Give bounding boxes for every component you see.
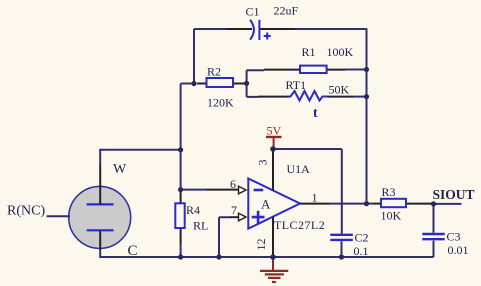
- op-amp minus input mark: [254, 189, 264, 192]
- node SIOUT junction: [431, 201, 436, 206]
- svg-text:R4: R4: [186, 203, 200, 217]
- svg-text:C1: C1: [246, 5, 260, 19]
- capacitor C1 22uF: [250, 20, 271, 40]
- svg-text:U1A: U1A: [287, 162, 311, 176]
- svg-text:RL: RL: [193, 219, 208, 233]
- power 5V symbol: [266, 137, 282, 148]
- svg-text:R1: R1: [302, 45, 316, 59]
- op-amp U1A triangle: [248, 179, 300, 229]
- svg-text:1: 1: [312, 191, 318, 205]
- wire pin 6 net: [181, 189, 238, 191]
- svg-text:C2: C2: [355, 231, 369, 245]
- svg-text:100K: 100K: [327, 45, 354, 59]
- resistor R1: [247, 66, 367, 73]
- svg-text:TLC27L2: TLC27L2: [274, 218, 325, 232]
- svg-text:R(NC): R(NC): [7, 204, 45, 219]
- svg-text:22uF: 22uF: [274, 4, 299, 18]
- resistor R3: [374, 199, 434, 207]
- wire left vertical from top to R2 node: [193, 29, 195, 84]
- resistor R2: [197, 78, 247, 87]
- svg-text:W: W: [113, 162, 127, 177]
- wire pin 7 net: [219, 217, 238, 257]
- svg-text:12: 12: [254, 239, 268, 251]
- wire SIOUT stub: [434, 203, 462, 205]
- node RT1 right rail junction: [364, 94, 369, 99]
- node pin 6 junction: [178, 187, 183, 192]
- node rail C2 junction: [339, 254, 344, 259]
- svg-text:SIOUT: SIOUT: [433, 187, 475, 202]
- wire lead from R(NC) label: [47, 215, 71, 217]
- svg-text:R2: R2: [207, 65, 221, 79]
- pin 7 arrow: [239, 213, 247, 221]
- node R2 right junction: [244, 81, 249, 86]
- node rail ground junction: [270, 254, 276, 260]
- wire op-amp output net pin 1: [300, 203, 374, 205]
- svg-text:0.1: 0.1: [354, 244, 369, 258]
- svg-text:C3: C3: [447, 230, 461, 244]
- resistor R4 RL: [175, 190, 184, 257]
- node W junction: [178, 147, 183, 152]
- ground symbol: [260, 258, 288, 282]
- svg-text:120K: 120K: [207, 96, 234, 110]
- svg-text:5V: 5V: [267, 124, 282, 138]
- thermistor RT1: [247, 91, 367, 101]
- wire left rail down to W node and pin 6 node: [180, 84, 182, 191]
- wire right rail: [366, 28, 368, 203]
- wire top net from node A to right rail: [194, 28, 367, 30]
- wire sensor bottom stem to rail: [99, 250, 101, 258]
- svg-text:R3: R3: [382, 185, 396, 199]
- svg-text:3: 3: [256, 160, 270, 166]
- svg-text:7: 7: [231, 203, 237, 217]
- node output rail junction: [364, 201, 369, 206]
- wire jog to left rail: [181, 83, 194, 85]
- wire mid vertical between R1 and RT1 branches: [246, 70, 248, 97]
- node R2 left junction: [191, 81, 196, 86]
- node rail R4 junction: [178, 254, 183, 259]
- svg-text:10K: 10K: [381, 209, 402, 223]
- pin 6 arrow: [239, 186, 247, 194]
- wire 5V node to C2 branch: [273, 149, 342, 234]
- op-amp plus input mark: [252, 211, 265, 224]
- wire W node horizontal: [99, 150, 180, 165]
- sensor R(NC) humidity element: [69, 165, 131, 250]
- node R1 right rail junction: [364, 67, 369, 72]
- svg-text:A: A: [261, 197, 271, 212]
- svg-text:RT1: RT1: [286, 78, 307, 92]
- capacitor C2: [330, 235, 353, 257]
- svg-text:0.01: 0.01: [448, 243, 469, 257]
- pin 3 lead: [272, 149, 274, 190]
- wire bottom rail: [100, 256, 433, 258]
- svg-text:6: 6: [230, 177, 236, 191]
- capacitor C3: [422, 204, 444, 257]
- node rail pin7 junction: [216, 254, 221, 259]
- svg-text:50K: 50K: [329, 83, 350, 97]
- svg-text:t: t: [313, 106, 318, 121]
- node 5V junction: [270, 146, 276, 152]
- pin 12 lead: [272, 217, 274, 257]
